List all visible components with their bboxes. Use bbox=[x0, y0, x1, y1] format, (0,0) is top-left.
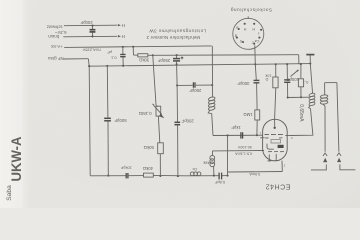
svg-text:5,5mA: 5,5mA bbox=[249, 172, 260, 176]
potentiometer 0,1M bbox=[152, 104, 164, 143]
svg-text:Saba: Saba bbox=[6, 185, 13, 201]
wire cathode bottom return bbox=[228, 161, 283, 172]
capacitor 250pF series bbox=[177, 82, 213, 87]
svg-text:10kpF: 10kpF bbox=[120, 165, 132, 170]
svg-text:500pF: 500pF bbox=[114, 118, 127, 123]
resistor 40k series bottom bbox=[144, 173, 186, 177]
svg-text:+: + bbox=[181, 56, 183, 60]
capacitor 1kpF bbox=[241, 132, 243, 138]
svg-text:250pF: 250pF bbox=[158, 58, 171, 63]
antenna terminal left bbox=[311, 153, 327, 170]
potentiometer 0,1M line bbox=[153, 55, 158, 106]
wire ground rail bbox=[89, 63, 312, 67]
wire cathode to tube bbox=[213, 150, 265, 152]
svg-text:0,1: 0,1 bbox=[110, 56, 116, 61]
svg-text:µF: µF bbox=[107, 50, 112, 55]
svg-text:H: H bbox=[243, 27, 246, 31]
inductor antenna primary coil bbox=[289, 64, 315, 136]
wire bottom rail bbox=[90, 175, 228, 177]
heater wire schwarz bbox=[64, 24, 121, 26]
wire corner from y55 rail bbox=[298, 55, 300, 64]
svg-text:schwarz: schwarz bbox=[47, 25, 63, 30]
wire cathode line vertical bbox=[227, 135, 229, 175]
wire +A rail bbox=[64, 46, 211, 48]
resistor 0,1 right bbox=[298, 64, 303, 98]
tube internals bbox=[260, 119, 289, 161]
svg-text:+A rot: +A rot bbox=[51, 44, 63, 49]
svg-text:48k: 48k bbox=[203, 160, 209, 165]
inductor Dr choke bottom bbox=[185, 172, 219, 176]
svg-text:H: H bbox=[122, 23, 125, 28]
resistor 30k drop from +A bbox=[133, 47, 154, 57]
resistor 1M bbox=[255, 110, 260, 135]
svg-text:10k: 10k bbox=[265, 73, 271, 77]
svg-text:1MΩ: 1MΩ bbox=[243, 112, 253, 117]
svg-text:g: g bbox=[235, 34, 237, 38]
svg-text:0,1: 0,1 bbox=[302, 80, 308, 85]
svg-text:300pF: 300pF bbox=[237, 81, 250, 86]
svg-text:braun: braun bbox=[48, 34, 60, 39]
page left margin (lighter) bbox=[0, 0, 32, 208]
svg-text:40kΩ: 40kΩ bbox=[142, 166, 153, 171]
socket pin labels bbox=[235, 26, 260, 45]
svg-text:Leistungsaufnahme 3W: Leistungsaufnahme 3W bbox=[149, 28, 207, 33]
resistor 10k anode bbox=[273, 64, 278, 119]
capacitor 200pF mid bbox=[175, 64, 181, 177]
inductor antenna secondary + bridge bbox=[320, 83, 339, 152]
ground symbol bbox=[306, 55, 314, 64]
svg-text:NF grau: NF grau bbox=[47, 56, 63, 61]
wire NF input bbox=[64, 59, 91, 176]
svg-text:Mehrfachröhre Nummer 2: Mehrfachröhre Nummer 2 bbox=[146, 35, 200, 40]
svg-text:Sockelschaltung: Sockelschaltung bbox=[230, 8, 272, 13]
svg-text:200pF: 200pF bbox=[80, 20, 93, 25]
title Saba UKW-A bbox=[6, 137, 24, 201]
svg-text:Ω: Ω bbox=[265, 77, 268, 81]
svg-text:0,5-1,3mA: 0,5-1,3mA bbox=[235, 152, 253, 156]
heater wire braun bbox=[63, 35, 121, 37]
svg-text:H: H bbox=[252, 27, 255, 31]
svg-text:H: H bbox=[122, 34, 125, 39]
trimmer capacitor 100pF bbox=[284, 64, 299, 98]
capacitor 10kpF series bottom bbox=[126, 173, 143, 178]
svg-text:C: C bbox=[251, 41, 254, 45]
svg-text:50-100V: 50-100V bbox=[237, 145, 251, 149]
capacitor 500pF bbox=[104, 66, 111, 177]
svg-text:50kΩ: 50kΩ bbox=[143, 145, 154, 150]
svg-text:7mA,235V: 7mA,235V bbox=[82, 48, 101, 53]
antenna terminal right bbox=[337, 153, 356, 170]
svg-text:1kpF: 1kpF bbox=[231, 125, 241, 130]
svg-text:UKW-A: UKW-A bbox=[8, 137, 24, 182]
svg-text:200pF: 200pF bbox=[181, 119, 194, 124]
capacitor electrolytic 250pF bbox=[173, 54, 183, 65]
svg-text:0,1MΩ: 0,1MΩ bbox=[138, 111, 152, 116]
svg-text:g: g bbox=[236, 26, 238, 30]
wire y97 bbox=[288, 96, 310, 98]
wire rail y55 bbox=[153, 54, 299, 57]
svg-text:100pF: 100pF bbox=[286, 77, 299, 82]
tube ECH42 envelope bbox=[263, 119, 288, 161]
capacitor 0,8pF series bbox=[219, 173, 227, 180]
svg-text:ECH42: ECH42 bbox=[265, 183, 290, 191]
svg-text:30kΩ: 30kΩ bbox=[138, 58, 149, 63]
svg-text:Dr.: Dr. bbox=[192, 167, 197, 172]
inductor oscillator anode coil bbox=[208, 46, 215, 136]
resistor 50k bbox=[158, 143, 164, 177]
tube pin numbers bbox=[259, 131, 293, 168]
wire grid hexode bbox=[213, 134, 263, 136]
svg-text:0,8pF: 0,8pF bbox=[214, 180, 225, 185]
svg-text:0,65mA: 0,65mA bbox=[298, 104, 304, 122]
socket lead bbox=[254, 45, 257, 64]
capacitor 200pF heater bbox=[90, 24, 96, 37]
tube socket diagram bbox=[233, 16, 264, 49]
inductor oscillator cathode coil bbox=[210, 151, 215, 177]
svg-text:250pF: 250pF bbox=[189, 88, 202, 93]
capacitor 300pF bbox=[254, 64, 260, 110]
capacitor C 0,1uF bbox=[120, 47, 125, 66]
